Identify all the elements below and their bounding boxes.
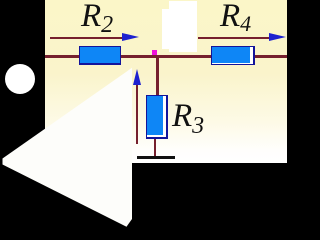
- current arrow left of R3 (pointing up): [136, 84, 138, 144]
- resistor R2: [79, 46, 121, 66]
- label R3: [172, 100, 204, 138]
- ground: [137, 156, 175, 159]
- label R4: [220, 0, 251, 35]
- wire: vertical from node down to R3 top: [156, 56, 159, 96]
- slide background (cream gradient panel): [45, 0, 287, 163]
- white overlay rectangle (large): [169, 1, 197, 52]
- current arrow above R4: [198, 37, 271, 39]
- wire: vertical from R3 bottom to ground: [154, 136, 157, 157]
- white overlay rectangle (small tab): [162, 9, 170, 49]
- white navigation circle button: [5, 64, 35, 94]
- current arrow above R2: [50, 37, 123, 39]
- resistor R3: [146, 95, 168, 139]
- label R2: [81, 0, 113, 37]
- wire: horizontal main wire: [45, 55, 287, 58]
- node: junction dot (magenta): [152, 50, 158, 56]
- resistor R4: [211, 46, 255, 66]
